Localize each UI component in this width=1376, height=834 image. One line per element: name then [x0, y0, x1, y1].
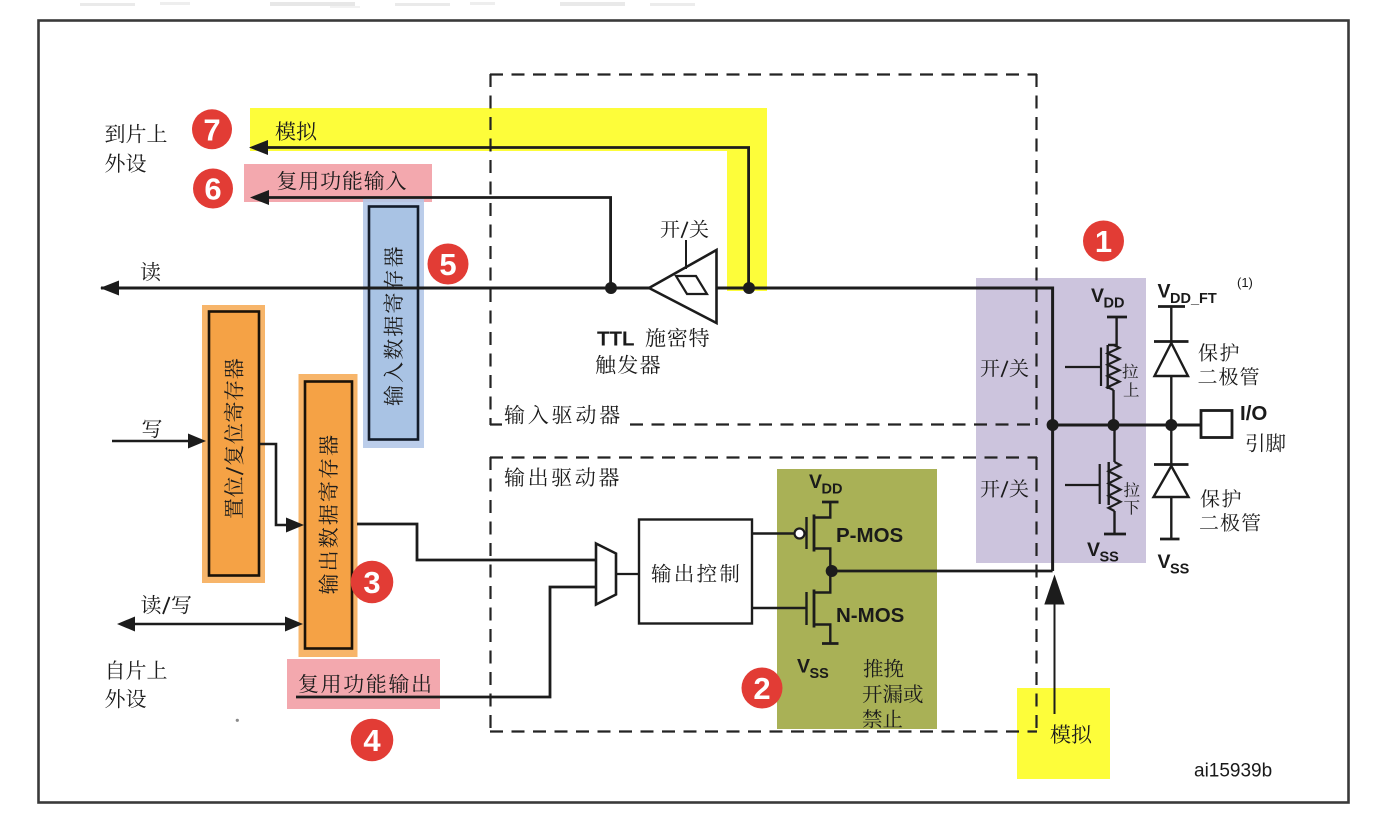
- svg-text:6: 6: [204, 172, 221, 207]
- svg-text:V: V: [1091, 285, 1104, 307]
- svg-text:V: V: [1158, 551, 1171, 573]
- svg-text:SS: SS: [1170, 562, 1190, 578]
- svg-text:N-MOS: N-MOS: [836, 604, 904, 627]
- svg-text:1: 1: [1095, 224, 1112, 259]
- svg-text:DD: DD: [1104, 296, 1125, 312]
- svg-text:7: 7: [203, 112, 220, 147]
- svg-text:V: V: [797, 656, 810, 678]
- svg-text:(1): (1): [1237, 275, 1253, 290]
- svg-text:4: 4: [363, 723, 381, 758]
- svg-text:SS: SS: [810, 666, 830, 682]
- svg-text:2: 2: [753, 671, 770, 706]
- svg-text:V: V: [809, 471, 822, 493]
- svg-text:TTL: TTL: [597, 328, 635, 351]
- svg-text:DD_FT: DD_FT: [1170, 291, 1217, 307]
- svg-text:V: V: [1087, 539, 1100, 561]
- svg-text:SS: SS: [1100, 550, 1120, 566]
- svg-text:I/O: I/O: [1240, 402, 1267, 425]
- svg-text:V: V: [1158, 281, 1171, 303]
- svg-text:P-MOS: P-MOS: [836, 524, 903, 547]
- svg-text:ai15939b: ai15939b: [1194, 761, 1272, 782]
- svg-text:5: 5: [439, 247, 456, 282]
- svg-text:DD: DD: [822, 482, 843, 498]
- svg-text:3: 3: [363, 565, 380, 600]
